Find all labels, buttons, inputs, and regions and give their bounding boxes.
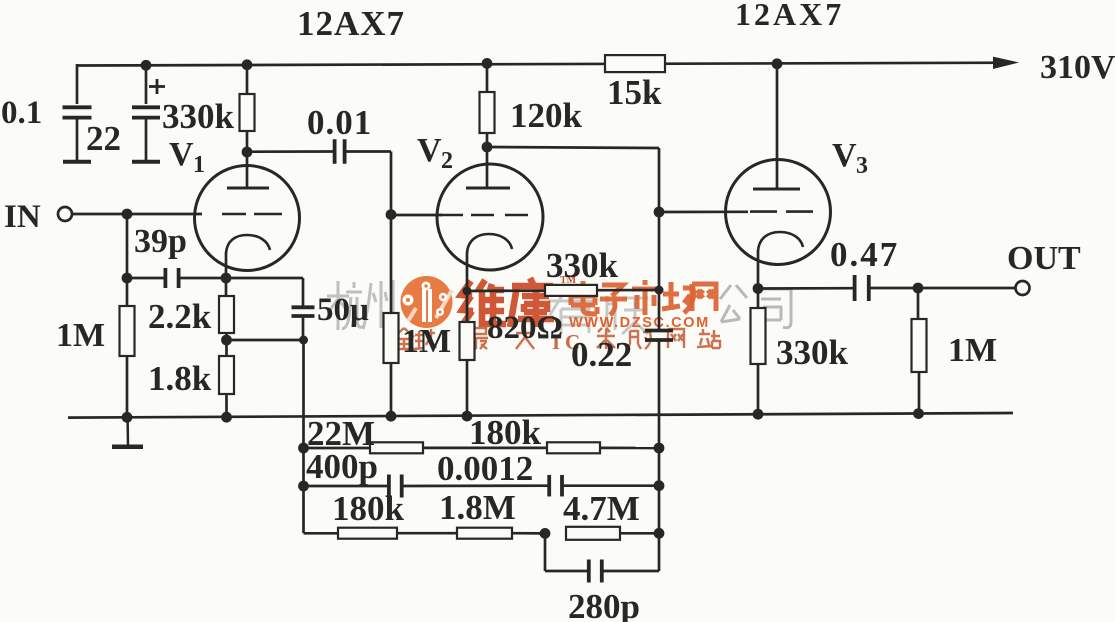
resistor 22M [370,442,423,453]
watermark red char Qiu [414,329,436,349]
node fb row3 right [654,528,665,539]
watermark gray char Si [759,289,791,328]
wire 2.2k to 1.8k [225,333,228,356]
svg-text:1.8M: 1.8M [439,488,516,527]
svg-text:22: 22 [86,119,121,158]
svg-text:2.2k: 2.2k [148,297,212,336]
wire rail drop to C0.1 [76,64,79,104]
node 1.8k ground [221,412,232,423]
label 330k (feedback) [546,246,619,285]
label 330k (V1 plate load) [162,97,235,136]
V1 cathode lead [225,252,228,296]
wire rail drop to C22 [145,64,148,104]
svg-text:V: V [417,132,442,169]
label 120k [510,96,583,135]
resistor 330k (feedback) [545,285,597,296]
capacitor 280p [589,560,602,583]
wire rail to R120k [486,63,489,92]
V1 cathode arc [226,235,270,253]
label 310V [1040,49,1115,86]
wire R120k to V2 plate [486,133,489,188]
svg-text:IN: IN [4,199,41,235]
wire B+ rail [77,63,1012,66]
wire ground bus [68,413,1013,418]
node 39p tap [122,273,133,284]
label 1M (output) [948,332,997,369]
svg-text:280p: 280p [568,587,640,622]
node rail/R330k [242,59,253,70]
resistor 1M (output) [912,288,927,414]
svg-text:1M: 1M [402,323,451,360]
node R820 ground [462,411,473,422]
wire R820 to bus [466,360,469,416]
wire IN node down [126,214,129,306]
wire V2 grid down to R1M [390,215,393,313]
watermark red char Wang2 [668,329,684,348]
node fb row3 mid [540,528,551,539]
svg-text:310V: 310V [1040,49,1115,86]
svg-text:1: 1 [193,152,205,178]
node V1 plate [242,147,253,158]
node input ground [122,412,133,423]
node fb row1 right [654,443,665,454]
label V1 [169,136,205,178]
wire fb row3 b [397,532,457,535]
resistor 820 [460,322,475,360]
capacitor 0.1 [63,107,92,162]
svg-text:12AX7: 12AX7 [735,0,844,32]
resistor 1M (input) [120,306,135,356]
label IN [4,199,41,235]
label 22M [307,414,375,453]
wire R1M to ground bus [126,356,129,417]
label 0.47 [830,235,899,274]
resistor 120k [480,92,495,133]
resistor 1M (V2 grid) [384,313,399,363]
label 400p [306,447,378,486]
node output [913,283,924,294]
wire C0.47 to out node [869,287,918,290]
node V2 grid [386,209,397,220]
V1 grid dashes [222,213,282,216]
wire feedback left rail [302,340,305,533]
wire fb row1 a [304,447,371,450]
label 0.22 [571,335,632,374]
svg-text:0.22: 0.22 [571,335,632,374]
label 0.1 [1,95,42,131]
label 820 [487,310,563,346]
svg-text:15k: 15k [607,73,662,112]
polarity + of C22 [149,79,165,94]
node IN/R1M [122,209,133,220]
wire C39p to cathode node [179,277,226,280]
resistor 180k (row3) [338,528,397,539]
capacitor 0.0012 [549,475,562,497]
svg-text:3: 3 [856,153,868,179]
node fb row1 left [298,443,309,454]
watermark gray char Hang [327,281,364,330]
watermark orange char Ku [510,278,554,327]
arrow 310V supply [993,57,1019,69]
wire out node to terminal [918,287,1016,290]
node V3 grid [654,207,665,218]
wire cathode to C50u top [226,277,303,280]
svg-text:1M: 1M [948,332,997,369]
node V3 cathode [753,283,764,294]
label 12AX7 (V1/V2) [297,4,405,43]
label 180k (row3) [332,489,405,528]
node R1M out ground [913,408,924,419]
watermark red char Zhan [697,329,720,348]
svg-text:120k: 120k [510,96,583,135]
svg-text:4.7M: 4.7M [563,489,640,528]
node right column fb tap [655,286,664,295]
label V3 [832,137,868,179]
label 0.0012 [437,449,533,488]
capacitor 22 (electrolytic) [132,107,160,162]
wire rail to R330k [246,64,249,94]
svg-text:0.47: 0.47 [830,235,899,274]
svg-text:180k: 180k [469,413,542,452]
node rail/R120k [482,58,493,69]
V3 cathode lead [757,250,760,289]
watermark red char Cai [597,328,615,349]
resistor 15k [605,55,665,72]
label 280p [568,587,640,622]
capacitor 0.22 [645,331,673,341]
wire R1M V2 to bus [390,363,393,416]
watermark orange char Dian [571,281,597,314]
wire cathode to R330k fb [467,289,545,292]
label 15k [607,73,662,112]
node rail/C22 [141,60,152,71]
watermark red char Zui [467,328,488,349]
svg-text:400p: 400p [306,447,378,486]
svg-text:39p: 39p [134,223,187,260]
V2 cathode arc [467,234,512,253]
wire 280p left [545,533,589,571]
svg-text:330k: 330k [776,333,849,372]
wire fb row3 a [304,532,339,535]
wire V2 plate to right column [487,147,659,148]
capacitor 50u [292,307,315,340]
watermark orange char Wei [461,280,506,327]
V1 plate bar [227,187,269,190]
watermark red char Quan [394,328,414,349]
wire IN to V1 grid [72,213,203,216]
svg-text:0.01: 0.01 [307,103,372,142]
wire R330k fb to right column [597,289,659,292]
wire right column upper [658,148,661,330]
svg-text:1M: 1M [56,317,105,354]
capacitor 0.47 [855,275,869,301]
svg-text:330k: 330k [162,97,235,136]
watermark logo circle [401,276,453,328]
wire to C50u bottom [227,339,304,342]
watermark orange char Shi [632,280,659,315]
watermark gray char Zhou [363,280,393,329]
label 1.8M [439,488,516,527]
V3 grid dashes [750,210,813,213]
wire to C39p [127,277,165,280]
V2 cathode lead [466,252,469,322]
svg-text:820Ω: 820Ω [487,310,563,346]
svg-text:0.1: 0.1 [1,95,42,131]
label 12AX7 (V3) [735,0,844,32]
wire fb row2 c [562,484,659,487]
resistor 180k (row1) [547,442,600,453]
label 1.8k [148,359,212,398]
wire right column lower [658,340,661,571]
svg-text:330k: 330k [546,246,619,285]
wire rail to V3 plate [776,64,779,190]
svg-text:50μ: 50μ [317,292,369,328]
node R330k V3 ground [753,409,764,420]
resistor 330k (V3 cathode) [751,289,766,415]
node C50u bottom [299,336,308,345]
svg-text:OUT: OUT [1007,240,1081,277]
svg-text:0.0012: 0.0012 [437,449,533,488]
node fb row2 left [298,481,309,492]
wire 1.8k to ground bus [225,394,228,417]
node fb row2 right [654,480,665,491]
label 1M (V2 grid) [402,323,451,360]
V3 plate bar [753,188,800,191]
wire fb row3 c [512,532,545,535]
svg-text:2: 2 [441,148,453,174]
watermark gray char behind 1 [548,294,595,334]
label 330k (V3 cathode) [776,333,849,372]
resistor 4.7M [566,527,620,540]
label 2.2k [148,297,212,336]
tube V1 envelope [195,166,300,271]
node V2 cathode tap [463,287,472,296]
svg-text:180k: 180k [332,489,405,528]
label 39p [134,223,187,260]
capacitor 400p [389,475,402,498]
wire fb row1 c [600,447,659,450]
terminal OUT [1016,281,1030,295]
node rail/V3 plate [772,58,783,69]
tube V3 envelope [726,160,831,265]
resistor 2.2k [219,296,234,333]
V2 plate bar [466,187,510,190]
wire cathode to C0.47 [758,287,853,290]
wire fb row1 b [423,447,547,450]
wire fb row2 a [304,485,390,488]
capacitor 0.01 [335,139,345,164]
watermark gray char behind 2 [607,296,648,334]
wire R330k to V1 plate [246,131,249,188]
resistor 1.8k [219,356,234,394]
terminal IN [58,207,72,221]
watermark red char Gou [627,331,651,349]
watermark gray char Gong [720,285,747,322]
label V2 [417,132,453,174]
resistor 1.8M [457,528,512,539]
watermark orange char Wang [692,284,716,311]
wire 280p right [602,570,659,573]
ground [112,417,143,447]
V3 cathode arc [758,232,803,251]
wire C50u top lead [302,278,305,307]
label 1M (input) [56,317,105,354]
wire C0.01 to V2 grid corner [345,152,391,216]
node V1 cathode/39p [221,273,232,284]
node R1M V2 ground [386,411,397,422]
label OUT [1007,240,1081,277]
tube V2 envelope [437,164,543,270]
label 50u [317,292,369,328]
node V2 plate [482,142,493,153]
watermark orange char Chang [662,282,694,313]
svg-text:1.8k: 1.8k [148,359,212,398]
svg-text:12AX7: 12AX7 [297,4,405,43]
wire V2 grid [391,214,442,217]
svg-text:WWW.DZSC.COM: WWW.DZSC.COM [569,315,710,331]
label 4.7M [563,489,640,528]
wire fb row3 d [620,532,659,535]
wire fb row2 b [402,484,549,487]
label 22 [86,119,121,158]
resistor 330k (V1 plate load) [240,94,255,131]
watermark red char Da [516,328,534,349]
V2 grid dashes [440,214,528,217]
svg-text:V: V [169,136,194,173]
wire V3 grid [659,210,748,213]
svg-text:V: V [832,137,857,174]
capacitor 39p [165,268,178,288]
watermark orange char Zi [600,285,627,315]
wire V1 plate to C0.01 [247,150,334,153]
label 180k (row1) [469,413,542,452]
label 0.01 [307,103,372,142]
node 2.2k/1.8k [221,335,232,346]
